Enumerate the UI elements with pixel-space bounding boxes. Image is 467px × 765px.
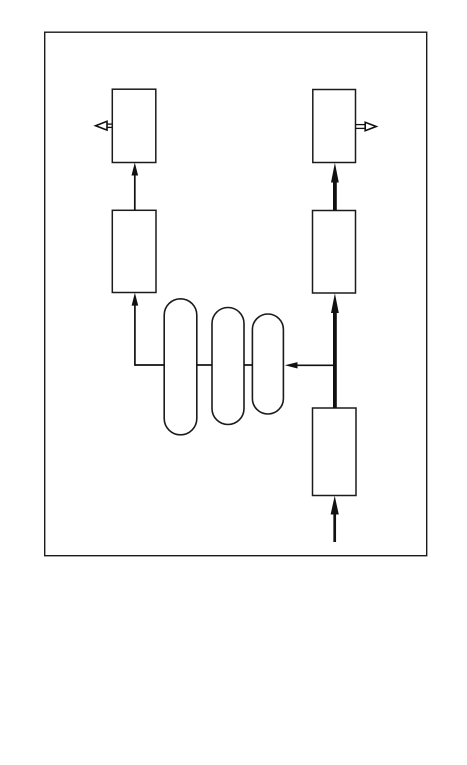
box B1 (top-left unit) <box>112 89 156 162</box>
wire: thick arrow B5 to B4 <box>331 293 339 408</box>
box B2 (left-middle unit) <box>112 210 156 292</box>
wire: horizontal segment V2 to V3 <box>244 364 252 366</box>
wire: arrow B2 to B1 (thin) <box>132 163 139 211</box>
wire: horizontal segment from riser into V3 with arrowhead <box>285 362 335 368</box>
open arrow out of B1 (left) <box>96 121 113 130</box>
vessel V2 (middle capsule) <box>212 308 244 425</box>
box B5 (bottom-right unit) <box>313 408 357 496</box>
box B4 (right-middle unit) <box>313 211 356 294</box>
vessel V3 (right capsule) <box>252 314 283 414</box>
wire: horizontal segment V1 to V2 <box>197 364 212 366</box>
wire: thick arrow B4 to B3 <box>331 163 339 211</box>
wire: horizontal process line segment left of V1 <box>135 364 164 366</box>
wire: left riser up into B2 with arrowhead <box>132 293 139 366</box>
wire: bottom feed arrow into B5 <box>331 496 339 542</box>
box B3 (top-right unit) <box>313 90 356 163</box>
vessel V1 (left capsule) <box>164 299 197 435</box>
open arrow out of B3 (right) <box>356 122 377 130</box>
border frame <box>45 32 427 556</box>
